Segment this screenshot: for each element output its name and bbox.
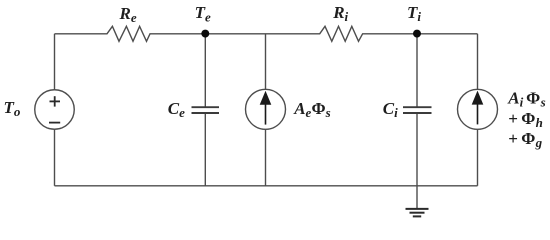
svg-text:Re: Re [119,4,137,25]
svg-text:Ti: Ti [407,3,421,24]
svg-text:Ri: Ri [332,3,348,24]
svg-text:+Φh: +Φh [508,109,543,130]
svg-text:Ci: Ci [383,99,398,120]
svg-text:+Φg: +Φg [508,129,542,150]
svg-text:To: To [4,98,21,119]
svg-text:AiΦs: AiΦs [507,89,545,110]
svg-text:Te: Te [195,3,211,24]
svg-text:AeΦs: AeΦs [293,99,330,120]
svg-text:Ce: Ce [168,99,185,120]
